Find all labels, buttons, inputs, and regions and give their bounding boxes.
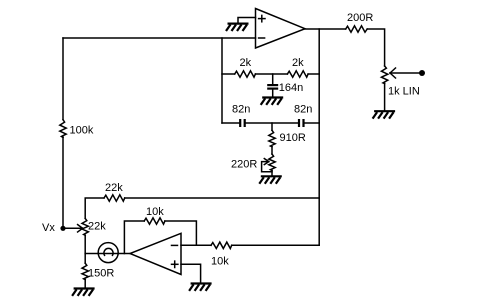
wire twin-T bottom row left bbox=[222, 122, 239, 124]
svg-text:22k: 22k bbox=[88, 221, 106, 233]
ground under 150R bbox=[72, 289, 95, 296]
wire twin-T left rail bbox=[221, 38, 223, 123]
wire U2 inverting input stub bbox=[181, 244, 211, 246]
svg-text:220R: 220R bbox=[231, 159, 257, 171]
resistor 22k horizontal bbox=[104, 182, 125, 201]
wire left rail bottom segment bbox=[62, 137, 64, 226]
wire 22k row to right rail bbox=[125, 197, 320, 199]
wire U2 non-inverting input stub bbox=[181, 264, 201, 282]
capacitor 164n bbox=[267, 82, 303, 94]
wire 200R to potentiometer bbox=[367, 29, 384, 66]
wire feedback left leg bbox=[124, 221, 144, 254]
svg-text:2k: 2k bbox=[240, 57, 252, 69]
potentiometer 22k bbox=[78, 218, 107, 235]
resistor 10k feedback bbox=[144, 206, 165, 224]
wire left rail top segment bbox=[62, 38, 64, 120]
svg-text:910R: 910R bbox=[280, 132, 306, 144]
resistor 150R bbox=[82, 263, 114, 279]
svg-text:82n: 82n bbox=[232, 104, 250, 116]
trimmer 220R bbox=[231, 154, 275, 172]
wire twin-T top row left bbox=[222, 73, 235, 75]
wire feedback right leg bbox=[165, 221, 197, 245]
svg-text:1k LIN: 1k LIN bbox=[388, 86, 420, 98]
wire lamp to U2 output bbox=[118, 253, 130, 255]
wire 150R to ground bbox=[84, 280, 86, 288]
svg-text:164n: 164n bbox=[279, 82, 303, 94]
op-amp U1 bbox=[256, 9, 306, 49]
wire 910R top stem bbox=[271, 123, 273, 130]
resistor 910R bbox=[269, 130, 306, 147]
svg-text:10k: 10k bbox=[146, 206, 164, 218]
resistor 200R bbox=[346, 12, 374, 32]
node Vx bbox=[42, 222, 66, 234]
ground at U2 non-inverting input bbox=[189, 284, 212, 291]
wire twin-T top row right bbox=[308, 73, 319, 75]
resistor 10k input bbox=[211, 242, 232, 267]
capacitor 82n left bbox=[232, 104, 250, 128]
capacitor 82n right bbox=[294, 104, 312, 128]
svg-text:22k: 22k bbox=[105, 182, 123, 194]
wire between 2k resistors bbox=[255, 73, 287, 75]
wire 164n top stem bbox=[272, 74, 274, 84]
wire 22k pot bottom bbox=[84, 235, 86, 253]
op-amp U2 bbox=[130, 233, 181, 274]
wire lamp row left bbox=[85, 253, 98, 255]
wire 22k row left leg bbox=[85, 198, 104, 218]
node potentiometer wiper terminal bbox=[419, 70, 425, 76]
svg-text:100k: 100k bbox=[70, 125, 94, 137]
wire U1 output bbox=[305, 28, 346, 30]
wire right rail from U1 output down bbox=[318, 29, 320, 245]
ground under 164n bbox=[261, 98, 284, 105]
svg-text:2k: 2k bbox=[292, 57, 304, 69]
svg-text:82n: 82n bbox=[294, 104, 312, 116]
wire 10k to right rail bbox=[232, 244, 320, 246]
lamp bbox=[98, 243, 118, 263]
ground at U1 non-inverting input bbox=[226, 24, 249, 31]
ground under 1k LIN bbox=[373, 111, 396, 118]
wire 910R to 220R bbox=[271, 147, 273, 154]
wire twin-T bottom row right bbox=[305, 122, 320, 124]
ground under 220R bbox=[259, 176, 282, 183]
wire 164n bottom stem bbox=[272, 90, 274, 97]
wire Vx to 22k wiper bbox=[66, 227, 82, 229]
resistor 2k right bbox=[287, 57, 308, 77]
wire U1 non-inverting input stub bbox=[238, 18, 256, 23]
svg-text:Vx: Vx bbox=[42, 222, 55, 234]
svg-text:150R: 150R bbox=[88, 268, 114, 280]
wire between 82n capacitors bbox=[246, 122, 298, 124]
svg-text:200R: 200R bbox=[347, 12, 373, 24]
wire 150R top bbox=[84, 254, 86, 264]
wire 220R to ground bbox=[271, 171, 273, 176]
wire potentiometer bottom bbox=[384, 84, 386, 111]
resistor 100k bbox=[60, 120, 94, 138]
svg-text:10k: 10k bbox=[211, 256, 229, 268]
potentiometer 1k LIN bbox=[381, 66, 419, 98]
resistor 2k left bbox=[235, 57, 256, 77]
wire top horizontal to op-amp U1 inverting input bbox=[63, 37, 256, 39]
